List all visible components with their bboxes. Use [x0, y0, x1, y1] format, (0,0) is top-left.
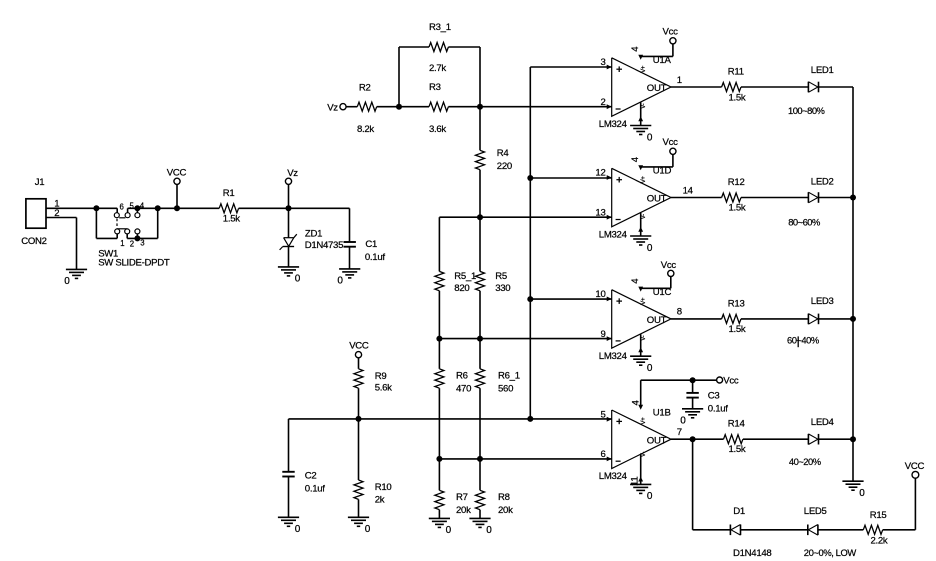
ground (C3) net 0 [680, 409, 703, 427]
svg-text:0: 0 [859, 488, 865, 499]
svg-text:Vcc: Vcc [663, 137, 679, 148]
wire right bus to ground [852, 439, 854, 481]
svg-text:20k: 20k [456, 505, 471, 516]
svg-text:V+: V+ [641, 417, 647, 425]
wire LED5 to R15 [818, 529, 863, 531]
wire LED3 to right bus [819, 318, 854, 320]
svg-text:R11: R11 [728, 67, 744, 78]
svg-text:0.1uf: 0.1uf [305, 484, 325, 495]
svg-text:LED1: LED1 [811, 65, 834, 76]
svg-text:LED2: LED2 [811, 176, 834, 187]
svg-text:820: 820 [454, 283, 469, 294]
junction bus / U1C pin 10 [527, 296, 533, 302]
resistor R6_1 [476, 339, 520, 395]
svg-text:9: 9 [600, 329, 605, 340]
svg-text:VCC: VCC [349, 340, 369, 351]
svg-text:D1N4735: D1N4735 [305, 240, 343, 251]
wire R12 to LED2 [741, 197, 808, 199]
svg-text:Vz: Vz [327, 102, 338, 113]
wire R4 to pin13 row [479, 170, 481, 218]
wire U1B out down to D1 row [693, 439, 731, 530]
svg-text:V-: V- [641, 214, 647, 219]
svg-text:R2: R2 [359, 82, 371, 93]
svg-text:J1: J1 [35, 177, 45, 188]
svg-text:0: 0 [647, 363, 653, 374]
LED LED1 [788, 65, 834, 116]
svg-text:LM324: LM324 [599, 119, 628, 130]
power Vcc terminal (U1A) [663, 27, 679, 44]
svg-text:2k: 2k [375, 495, 385, 506]
wire U1B out to junction [671, 438, 724, 440]
svg-text:0: 0 [647, 243, 653, 254]
svg-text:VCC: VCC [905, 461, 925, 472]
svg-text:R9: R9 [375, 371, 387, 382]
svg-text:0: 0 [337, 276, 343, 287]
wire LED1 to right bus [819, 86, 854, 88]
resistor R10 [354, 419, 391, 506]
svg-text:0: 0 [647, 491, 653, 502]
ground (ZD1) net 0 [278, 267, 301, 285]
svg-text:Vcc: Vcc [663, 27, 679, 38]
wire plus bus vertical [529, 67, 531, 419]
svg-text:U1B: U1B [653, 407, 671, 418]
svg-text:V-: V- [641, 335, 647, 340]
svg-text:2: 2 [130, 239, 134, 248]
svg-text:R4: R4 [497, 148, 510, 159]
svg-text:Vcc: Vcc [661, 260, 677, 271]
wire D1 to LED5 [741, 529, 808, 531]
wire LED4 to right bus [819, 438, 854, 440]
resistor R6 [435, 339, 471, 395]
svg-text:0: 0 [680, 416, 686, 427]
svg-text:R5: R5 [495, 271, 507, 282]
svg-text:R1: R1 [223, 188, 235, 199]
svg-text:LED5: LED5 [804, 506, 827, 517]
svg-text:14: 14 [683, 185, 694, 196]
resistor R4 [476, 148, 512, 172]
svg-text:OUT: OUT [647, 315, 667, 326]
ground (R7) net 0 [429, 510, 452, 537]
svg-text:40~20%: 40~20% [789, 456, 821, 467]
capacitor C2 [282, 419, 325, 517]
resistor R5_1 [435, 271, 476, 294]
capacitor C3 [686, 380, 728, 414]
svg-text:R14: R14 [728, 419, 746, 430]
svg-text:SW SLIDE-DPDT: SW SLIDE-DPDT [98, 257, 170, 268]
wire R14 to LED4 [743, 438, 809, 440]
svg-text:1.5k: 1.5k [729, 203, 746, 214]
op-amp U1C LM324 [595, 287, 681, 362]
svg-text:1.5k: 1.5k [729, 444, 746, 455]
junction R4/R5 (pin 13 row) [477, 214, 483, 220]
svg-text:C2: C2 [305, 471, 317, 482]
capacitor C1 [344, 208, 386, 269]
zener diode ZD1 D1N4735 [280, 208, 344, 267]
U1D ground pin [638, 213, 647, 236]
LED LED3 [787, 296, 834, 347]
junction R2/R3_1 [396, 104, 402, 110]
wire bus to U1C pin 10 [530, 298, 611, 300]
svg-text:3.6k: 3.6k [429, 124, 446, 135]
svg-text:LED3: LED3 [811, 296, 834, 307]
power Vcc terminal (U1B) [717, 375, 739, 386]
wire J1 pin 1 to SW1 pin 6 [46, 207, 117, 209]
junction bus / U1D pin 12 [527, 175, 533, 181]
ground (C1) net 0 [337, 269, 360, 287]
wire R3 to U1A pin 2 [448, 106, 611, 108]
svg-text:0: 0 [365, 524, 371, 535]
svg-text:R3: R3 [429, 82, 441, 93]
svg-text:0: 0 [486, 525, 492, 536]
ground (U1C) net 0 [630, 356, 653, 374]
wire U1C out to R13 [671, 318, 722, 320]
svg-text:R13: R13 [728, 298, 745, 309]
svg-text:1.5k: 1.5k [729, 92, 746, 103]
svg-text:0: 0 [295, 524, 301, 535]
LED LED4 [789, 417, 835, 467]
svg-text:R5_1: R5_1 [454, 271, 476, 282]
svg-text:7: 7 [677, 427, 682, 438]
svg-text:R8: R8 [498, 492, 510, 503]
LED LED2 [788, 176, 833, 227]
svg-text:20k: 20k [498, 505, 513, 516]
svg-text:LED4: LED4 [811, 417, 835, 428]
svg-text:12: 12 [595, 168, 605, 179]
svg-text:LM324: LM324 [599, 230, 628, 241]
junction R9/R10 [356, 416, 362, 422]
power VCC terminal (R9) [349, 340, 369, 368]
diode D1 D1N4148 [730, 506, 771, 559]
wire R3 node down to R4 [479, 107, 481, 151]
svg-text:2.7k: 2.7k [429, 63, 446, 74]
svg-text:LM324: LM324 [599, 351, 628, 362]
svg-text:2.2k: 2.2k [871, 536, 888, 547]
svg-text:100~80%: 100~80% [788, 105, 825, 116]
ground (R8) net 0 [469, 510, 492, 537]
junction at SW1 left [93, 205, 99, 211]
U1C power pin 4 [630, 276, 671, 305]
LED LED5 [804, 506, 857, 558]
svg-text:Vcc: Vcc [723, 375, 739, 386]
op-amp U1D LM324 [595, 166, 693, 241]
svg-text:6: 6 [120, 202, 124, 211]
svg-text:3: 3 [600, 57, 605, 68]
svg-text:6: 6 [600, 449, 605, 460]
svg-text:8.2k: 8.2k [357, 124, 374, 135]
wire pin 9 row [439, 291, 611, 339]
ground (C2) net 0 [278, 517, 301, 535]
wire R11 to LED1 [741, 86, 808, 88]
resistor R5 [476, 217, 511, 294]
wire divider row (pin 5 row) [289, 418, 612, 420]
resistor R8 [476, 459, 514, 516]
power VCC terminal (R15) [905, 461, 925, 478]
svg-text:V+: V+ [641, 297, 647, 305]
terminal Vz (input) [327, 102, 357, 113]
resistor R2 [357, 82, 377, 135]
svg-text:VCC: VCC [167, 167, 187, 178]
wire bus to U1D pin 12 [530, 177, 611, 179]
svg-text:V+: V+ [641, 65, 647, 73]
wire R3_1 to right column [448, 47, 480, 107]
junction R6 bottom (pin 6 row) [436, 456, 442, 462]
op-amp U1A LM324 [599, 55, 682, 130]
svg-text:1: 1 [677, 75, 682, 86]
resistor R7 [435, 459, 471, 516]
svg-text:2: 2 [600, 97, 605, 108]
op-amp U1B LM324 [599, 407, 682, 482]
wire R1 to node Vz [239, 207, 350, 209]
wire R13 to LED3 [741, 318, 808, 320]
svg-text:R6: R6 [456, 370, 468, 381]
svg-text:ZD1: ZD1 [305, 228, 322, 239]
svg-text:OUT: OUT [647, 83, 667, 94]
ground (R10) net 0 [348, 499, 371, 535]
svg-text:330: 330 [495, 283, 510, 294]
svg-text:470: 470 [456, 384, 471, 395]
U1C ground pin [638, 334, 647, 356]
svg-text:R6_1: R6_1 [498, 370, 520, 381]
U1D power pin 4 [630, 154, 673, 183]
svg-text:R12: R12 [728, 177, 745, 188]
wire R15 to VCC [883, 478, 916, 530]
wire pin 13 row [439, 216, 611, 218]
svg-text:C3: C3 [708, 391, 720, 402]
ground (U1A) net 0 [630, 126, 653, 144]
connector J1 [21, 177, 59, 247]
ground (J1 pin 2) net 0 [64, 269, 87, 287]
junction R5_1 bottom (pin 9 row) [436, 336, 442, 342]
svg-text:0.1uf: 0.1uf [365, 252, 385, 263]
svg-text:1.5k: 1.5k [223, 214, 240, 225]
power Vcc terminal (U1D) [663, 137, 679, 154]
junction bus bottom (pin 5) [527, 416, 533, 422]
wire U1A out to R11 [671, 86, 722, 88]
U1B power pin 4 [630, 380, 647, 424]
svg-text:C1: C1 [365, 239, 377, 250]
svg-text:560: 560 [498, 384, 513, 395]
junction LED4/right bus [850, 436, 856, 442]
wire left column top [438, 217, 440, 271]
junction R6_1 bottom (pin 6 row) [477, 456, 483, 462]
resistor R3_1 [429, 22, 451, 74]
svg-text:R7: R7 [456, 492, 468, 503]
svg-text:V+: V+ [641, 176, 647, 184]
ground (U1D) net 0 [630, 236, 653, 254]
resistor R14 [724, 419, 746, 456]
svg-text:OUT: OUT [647, 194, 667, 205]
wire U1B V+ to Vcc [641, 379, 717, 381]
svg-text:60~40%: 60~40% [787, 335, 819, 346]
svg-text:3: 3 [140, 239, 144, 248]
svg-text:1.5k: 1.5k [729, 324, 746, 335]
wire J1 pin 2 down to ground [46, 218, 77, 270]
resistor R11 [722, 67, 746, 104]
ground (U1B pin 11) net 0 [630, 484, 653, 502]
svg-text:R10: R10 [375, 482, 392, 493]
svg-text:R15: R15 [870, 510, 887, 521]
svg-text:5: 5 [600, 409, 605, 420]
junction R3/R4 [477, 104, 483, 110]
power VCC terminal (left) [167, 167, 187, 211]
switch SW1 SW SLIDE-DPDT [96, 201, 219, 268]
junction U1B output node [690, 436, 696, 442]
svg-text:1: 1 [120, 239, 124, 248]
svg-text:0: 0 [446, 525, 452, 536]
resistor R12 [722, 177, 746, 214]
svg-text:R3_1: R3_1 [429, 22, 451, 33]
wire R9 to divider node [358, 388, 360, 419]
wire right bus vertical [852, 87, 854, 439]
svg-text:220: 220 [497, 161, 512, 172]
node Vz terminal (over ZD1) [285, 168, 298, 211]
svg-text:LM324: LM324 [599, 471, 628, 482]
wire R6 to pin 6 row [439, 388, 480, 459]
wire LED2 to right bus [819, 197, 854, 199]
resistor R3 [429, 82, 448, 135]
svg-text:0.1uf: 0.1uf [708, 404, 728, 415]
svg-text:Vz: Vz [287, 168, 298, 179]
power Vcc terminal (U1C) [661, 260, 677, 276]
resistor R13 [722, 298, 746, 335]
U1B ground pin 11 [630, 452, 647, 486]
svg-text:V-: V- [641, 452, 647, 457]
svg-text:13: 13 [595, 207, 605, 218]
U1A power pin 4 [630, 44, 673, 73]
resistor R1 [219, 188, 240, 225]
svg-text:5.6k: 5.6k [375, 383, 392, 394]
svg-text:V-: V- [641, 103, 647, 108]
ground (right bus) net 0 [842, 481, 865, 499]
wire U1D out to R12 [671, 197, 722, 199]
svg-text:0: 0 [64, 276, 70, 287]
svg-text:20~0%, LOW: 20~0%, LOW [804, 547, 857, 558]
U1A ground pin [638, 102, 647, 125]
wire bus to U1A pin 3 [530, 66, 611, 68]
resistor R9 [354, 369, 392, 394]
svg-text:OUT: OUT [647, 435, 667, 446]
svg-text:8: 8 [677, 307, 682, 318]
wire R2 to R3 [377, 106, 429, 108]
svg-text:80~60%: 80~60% [788, 216, 820, 227]
junction C3 tap [690, 377, 696, 383]
svg-text:0: 0 [647, 132, 653, 143]
svg-text:10: 10 [595, 289, 605, 300]
wire pin 6 row [439, 458, 611, 460]
svg-text:0: 0 [295, 274, 301, 285]
svg-text:D1: D1 [733, 506, 745, 517]
svg-text:D1N4148: D1N4148 [733, 548, 771, 559]
wire up to R3_1 [399, 47, 429, 107]
junction LED2/right bus [850, 195, 856, 201]
junction R5 bottom (pin 9 row) [477, 336, 483, 342]
junction LED3/right bus [850, 316, 856, 322]
resistor R15 [863, 510, 888, 547]
svg-text:CON2: CON2 [21, 236, 46, 247]
